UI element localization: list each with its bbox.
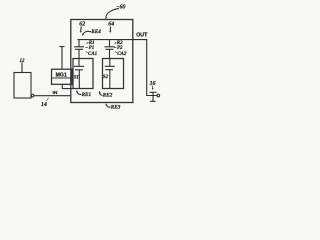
label IN xyxy=(53,90,58,96)
svg-text:MG1: MG1 xyxy=(56,72,67,78)
leader line for 12 xyxy=(21,63,23,73)
arrow RE2 xyxy=(100,92,103,95)
svg-text:P1: P1 xyxy=(89,46,95,51)
leader arrow for 16 xyxy=(152,86,154,89)
label RE1 xyxy=(82,92,92,98)
label RE4 xyxy=(91,29,101,35)
box MG1 xyxy=(52,69,73,84)
arrow RE1 xyxy=(77,92,81,95)
label 62 xyxy=(79,22,85,28)
label 12 xyxy=(20,59,26,64)
svg-text:60: 60 xyxy=(120,4,126,10)
top rail wire xyxy=(78,39,133,41)
svg-text:S2: S2 xyxy=(103,75,109,80)
label OUT xyxy=(136,33,148,39)
label CA2 xyxy=(117,52,127,57)
svg-text:64: 64 xyxy=(108,22,114,28)
wire IN xyxy=(34,95,71,97)
element S2 xyxy=(105,59,115,89)
svg-text:RE3: RE3 xyxy=(111,105,121,111)
svg-text:S1: S1 xyxy=(74,76,79,81)
leader line for 14 xyxy=(47,98,49,101)
label S2 xyxy=(103,75,109,80)
label 60 xyxy=(120,4,126,10)
label 14 xyxy=(41,102,47,108)
label P2 xyxy=(117,46,123,51)
label 16 xyxy=(150,81,156,87)
label R1 xyxy=(89,41,95,46)
label RE3 xyxy=(111,105,121,111)
label 64 xyxy=(108,22,114,28)
svg-text:IN: IN xyxy=(53,90,58,96)
resonator box RE1 xyxy=(73,59,93,89)
label R2 xyxy=(117,41,123,46)
antenna T terminal above MG1 xyxy=(60,47,65,70)
output load element 16 xyxy=(150,92,157,101)
capacitor CA2 branch xyxy=(105,40,115,59)
arrow 64 xyxy=(109,27,111,32)
svg-text:CA1: CA1 xyxy=(88,52,97,57)
arrow RE4 xyxy=(83,31,91,34)
wire OUT xyxy=(133,40,157,96)
resonator box RE2 xyxy=(103,59,124,89)
svg-text:14: 14 xyxy=(41,102,47,108)
element S1 xyxy=(74,59,84,89)
outer box 60 xyxy=(71,20,133,103)
svg-text:RE1: RE1 xyxy=(82,92,92,98)
input transducer box 12 xyxy=(14,73,31,99)
svg-text:OUT: OUT xyxy=(136,33,148,39)
wire MG1 to RE1 xyxy=(62,84,73,88)
svg-text:P2: P2 xyxy=(117,46,123,51)
input terminal circle xyxy=(31,94,34,97)
output terminal circle xyxy=(157,94,160,97)
label CA1 xyxy=(88,52,97,57)
arrow 62 xyxy=(80,27,83,32)
svg-text:CA2: CA2 xyxy=(117,52,127,57)
label S1 xyxy=(74,76,79,81)
arrow RE3 xyxy=(106,105,110,107)
label P1 xyxy=(89,46,95,51)
svg-text:RE2: RE2 xyxy=(103,93,113,99)
label RE2 xyxy=(103,93,113,99)
svg-text:RE4: RE4 xyxy=(91,29,101,35)
capacitor CA1 branch xyxy=(74,40,84,59)
leader arrow for 60 xyxy=(106,8,119,17)
svg-text:62: 62 xyxy=(79,22,85,28)
